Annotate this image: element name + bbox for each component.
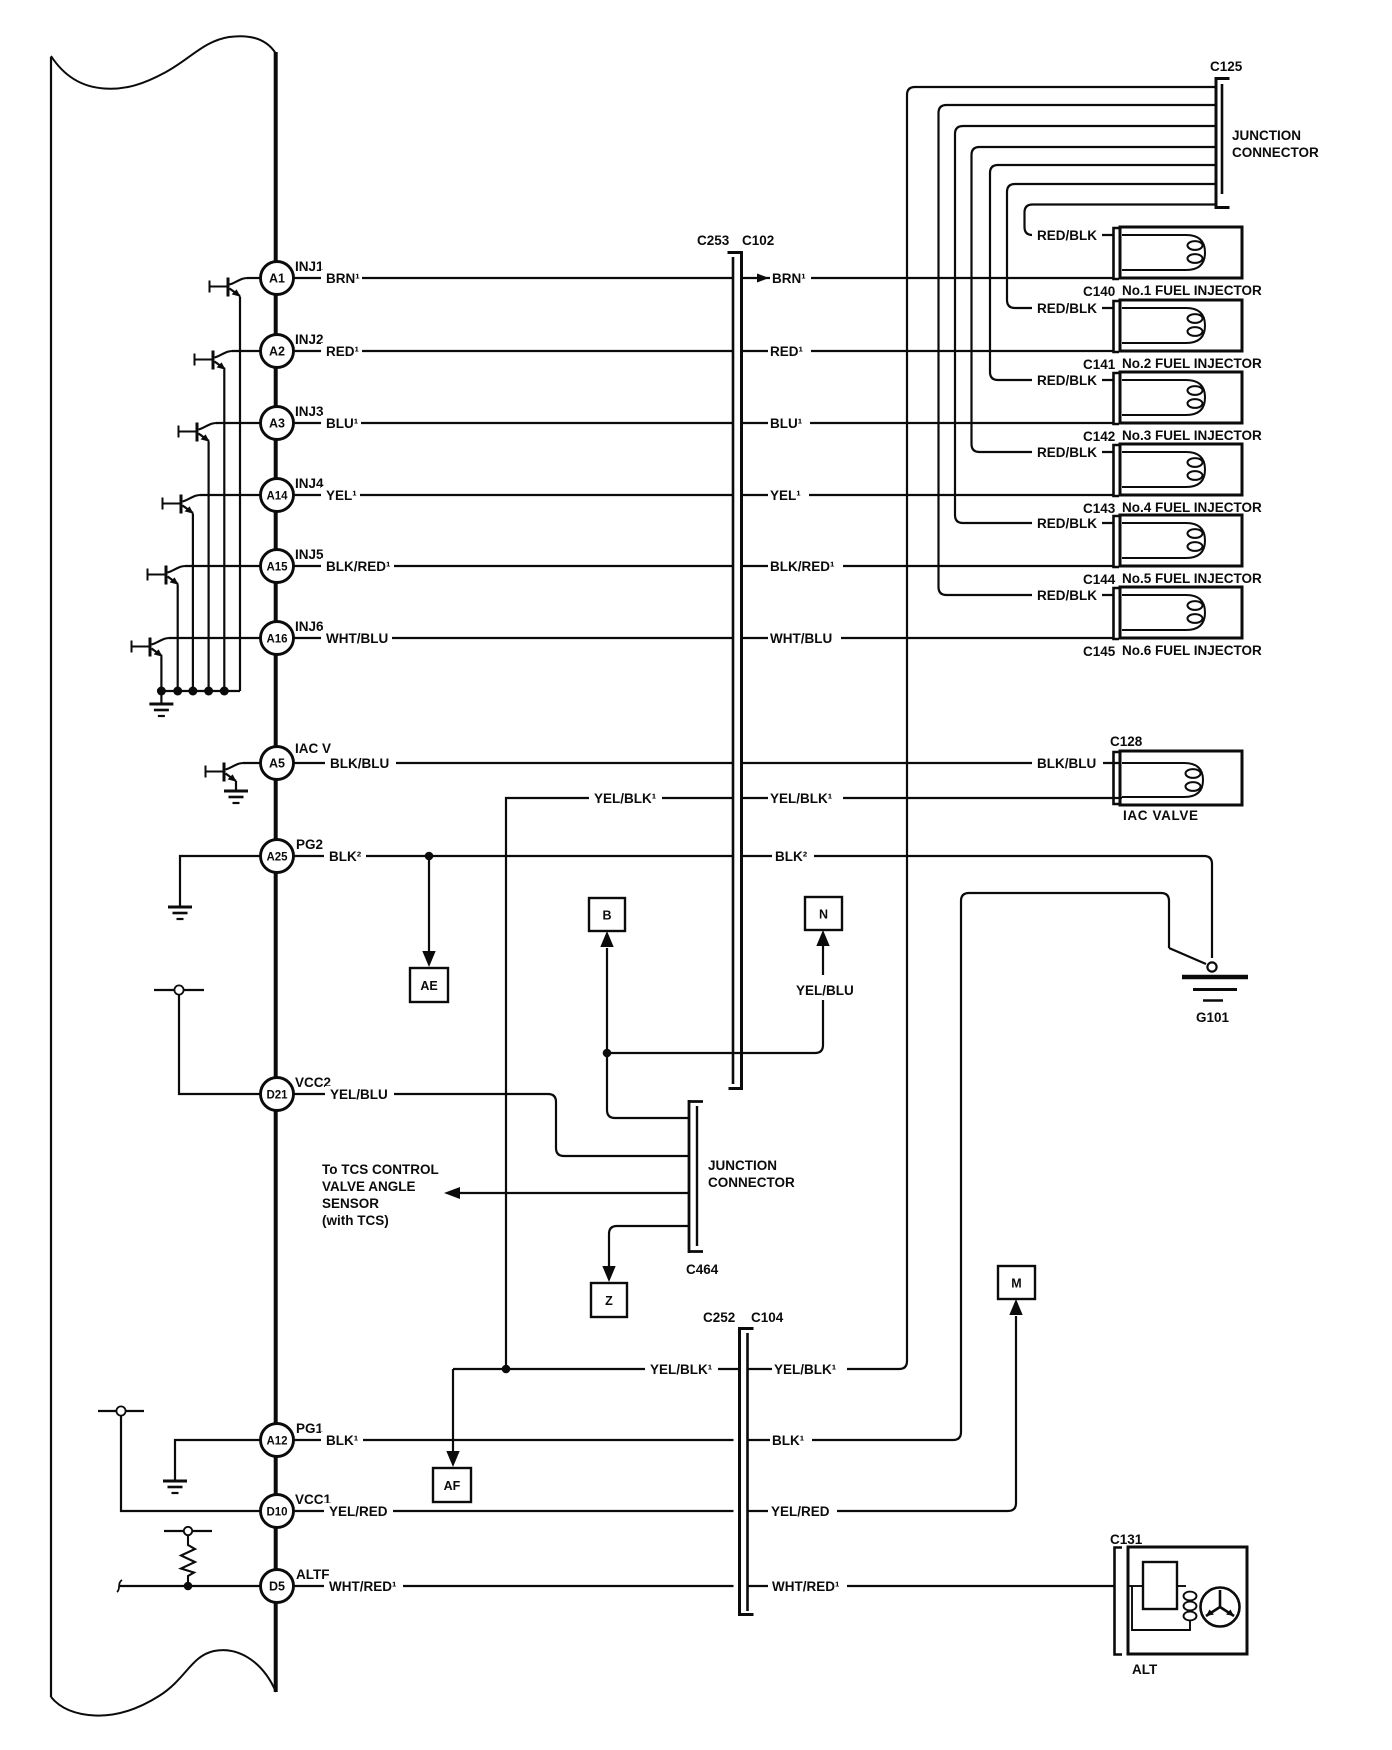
svg-text:WHT/BLU: WHT/BLU: [770, 631, 832, 646]
svg-text:YEL/BLU: YEL/BLU: [330, 1087, 388, 1102]
svg-text:YEL/BLK¹: YEL/BLK¹: [594, 791, 657, 806]
pin A15: [261, 550, 294, 583]
svg-text:A1: A1: [269, 272, 285, 286]
svg-text:A25: A25: [266, 852, 288, 864]
svg-text:C253: C253: [697, 233, 730, 248]
box Z: [591, 1266, 627, 1317]
wire C125 pin2 to injector 6: [939, 105, 1217, 595]
box B: [589, 898, 625, 947]
svg-text:D21: D21: [266, 1090, 288, 1102]
wire YEL1 left (A14 to C253): [294, 494, 734, 496]
connector C253/C102: [728, 251, 742, 1090]
terminal circle resistor top: [184, 1527, 192, 1535]
label YEL/BLK1 upper right: [768, 790, 843, 806]
fuel injector No.4 C143: [1114, 444, 1243, 496]
fuel injector No.5 C144: [1114, 515, 1243, 567]
svg-text:B: B: [602, 909, 611, 923]
svg-text:AE: AE: [420, 979, 437, 993]
ground G101: [1182, 977, 1248, 1001]
label YEL/BLU left: [325, 1086, 394, 1102]
transistor Q6 (INJ6 driver): [132, 638, 262, 692]
pin A3: [261, 407, 294, 440]
svg-text:C131: C131: [1110, 1532, 1143, 1547]
transistor Q1 (INJ1 driver): [210, 278, 262, 692]
label YEL/BLK1 upper left: [589, 790, 662, 806]
wire RED1 left (A2 to C253): [294, 350, 734, 352]
svg-text:INJ1: INJ1: [295, 259, 324, 274]
wire YEL/BLK1 bottom row left: [453, 1369, 740, 1451]
wire BLU1 left (A3 to C253): [294, 422, 734, 424]
wire YEL/RED (D10 to C252): [294, 1510, 734, 1512]
svg-text:IAC VALVE: IAC VALVE: [1123, 808, 1198, 823]
transistor Q5 (INJ5 driver): [148, 566, 262, 692]
ground (injector drivers): [149, 691, 173, 716]
svg-text:RED¹: RED¹: [326, 344, 360, 359]
label BLK1 right: [770, 1432, 812, 1448]
svg-text:C143: C143: [1083, 501, 1116, 516]
wire C125 pin6 to injector 2: [1007, 184, 1216, 308]
svg-text:A12: A12: [266, 1436, 287, 1448]
svg-text:A5: A5: [269, 757, 285, 771]
wire C125 pin4 to injector 4: [972, 147, 1217, 452]
wire BLK2 right (C102 to G101 switch): [742, 856, 1213, 958]
svg-text:WHT/BLU: WHT/BLU: [326, 631, 388, 646]
svg-text:RED/BLK: RED/BLK: [1037, 373, 1097, 388]
label RED/BLK injector 6: [1032, 587, 1102, 603]
wire BLK1 (A12 to C252): [294, 1439, 734, 1441]
pin A25: [261, 840, 294, 873]
svg-text:RED/BLK: RED/BLK: [1037, 228, 1097, 243]
svg-text:PG1: PG1: [296, 1421, 324, 1436]
label YEL/BLU on N drop: [793, 981, 859, 998]
svg-text:RED/BLK: RED/BLK: [1037, 301, 1097, 316]
label RED/BLK injector 1: [1032, 227, 1102, 243]
pin D10: [261, 1495, 294, 1528]
label RED/BLK injector 5: [1032, 515, 1102, 531]
label YEL1 left: [321, 487, 360, 503]
fuel injector No.2 C141: [1114, 300, 1243, 352]
wire B/N row crossing C102: [607, 946, 823, 1053]
svg-text:No.5 FUEL INJECTOR: No.5 FUEL INJECTOR: [1122, 571, 1262, 586]
label YEL/RED right: [768, 1503, 837, 1519]
wire YEL/RED right (C104 to M): [748, 1316, 1017, 1511]
svg-text:WHT/RED¹: WHT/RED¹: [772, 1579, 840, 1594]
ground (A25 PG2): [168, 907, 192, 919]
node rail junction dots: [157, 687, 229, 696]
svg-text:AF: AF: [444, 1479, 461, 1493]
svg-text:YEL/BLK¹: YEL/BLK¹: [774, 1362, 837, 1377]
wire WHT/RED1 right (C104 to ALT): [748, 1585, 1115, 1587]
svg-text:A14: A14: [266, 491, 288, 503]
svg-text:BLK¹: BLK¹: [326, 1433, 359, 1448]
label WHT/RED1 left: [324, 1578, 403, 1594]
pin A5: [261, 747, 294, 780]
svg-text:CONNECTOR: CONNECTOR: [1232, 145, 1319, 160]
svg-text:C102: C102: [742, 233, 774, 248]
label RED/BLK injector 2: [1032, 300, 1102, 316]
terminal circle D21 branch: [174, 985, 183, 994]
svg-text:C144: C144: [1083, 572, 1116, 587]
wire YEL/BLK1 bottom row right (to C125 feed): [748, 87, 1217, 1369]
svg-text:RED/BLK: RED/BLK: [1037, 588, 1097, 603]
node dot BLK2/AE: [425, 852, 434, 861]
svg-text:D10: D10: [266, 1507, 287, 1519]
label BLK/RED1 right: [768, 558, 843, 574]
wire TCS arrow line: [444, 1187, 688, 1266]
svg-text:A15: A15: [266, 562, 288, 574]
svg-text:C142: C142: [1083, 429, 1115, 444]
svg-text:To TCS CONTROL: To TCS CONTROL: [322, 1162, 439, 1177]
svg-text:C464: C464: [686, 1262, 719, 1277]
svg-text:BLK/BLU: BLK/BLU: [330, 756, 389, 771]
svg-text:RED/BLK: RED/BLK: [1037, 445, 1097, 460]
svg-text:BRN¹: BRN¹: [326, 271, 360, 286]
label RED1 left: [321, 343, 362, 359]
svg-text:C104: C104: [751, 1310, 784, 1325]
svg-text:BLK¹: BLK¹: [772, 1433, 805, 1448]
svg-text:INJ5: INJ5: [295, 547, 324, 562]
label BLK2 right: [772, 848, 814, 864]
svg-text:CONNECTOR: CONNECTOR: [708, 1175, 795, 1190]
wire emitter rail: [161, 690, 240, 692]
fuel injector No.6 C145: [1114, 587, 1243, 639]
svg-text:BRN¹: BRN¹: [772, 271, 806, 286]
svg-text:BLK/BLU: BLK/BLU: [1037, 756, 1096, 771]
svg-text:RED/BLK: RED/BLK: [1037, 516, 1097, 531]
svg-text:YEL/BLK¹: YEL/BLK¹: [770, 791, 833, 806]
wire BLK/RED1 left (A15 to C253): [294, 565, 734, 567]
wire C125 pin3 to injector 5: [955, 126, 1216, 523]
wire YEL/BLK1 left vertical: [506, 798, 733, 1369]
wire YEL/BLK1 right (C102 to IAC valve low pin): [742, 797, 1123, 799]
svg-text:WHT/RED¹: WHT/RED¹: [329, 1579, 397, 1594]
svg-text:C252: C252: [703, 1310, 735, 1325]
svg-text:IAC V: IAC V: [295, 741, 331, 756]
svg-text:A16: A16: [266, 634, 287, 646]
label BLK2 left: [324, 848, 366, 864]
wire BLK1 right (C104 to G101 feed): [748, 893, 1170, 1440]
transistor Q7 (IAC driver): [206, 763, 262, 792]
wire A25 to ground: [180, 856, 261, 906]
box AF: [433, 1451, 471, 1502]
box N: [805, 897, 842, 946]
label BRN1 left: [321, 270, 362, 286]
switch to G101: [1169, 948, 1217, 972]
svg-text:C125: C125: [1210, 59, 1243, 74]
wire WHT/BLU left (A16 to C253): [294, 637, 734, 639]
label BLK/BLU left: [325, 755, 396, 771]
wire WHT/RED1 (D5 to C252): [294, 1585, 734, 1587]
svg-text:Z: Z: [605, 1294, 613, 1308]
svg-text:BLK²: BLK²: [329, 849, 362, 864]
svg-text:INJ3: INJ3: [295, 404, 324, 419]
wire BRN1 right (C102 to injector 1): [742, 277, 1114, 279]
wire BLU1 right (C102 to injector 3): [742, 422, 1114, 424]
node dot YEL/BLK junction: [502, 1365, 511, 1374]
svg-text:C141: C141: [1083, 357, 1116, 372]
label BLK/RED1 left: [321, 558, 394, 574]
fuel injector No.1 C140: [1114, 227, 1243, 279]
IAC valve C128: [1114, 751, 1243, 805]
wire break squiggle D5 row: [117, 1580, 122, 1592]
svg-text:PG2: PG2: [296, 837, 323, 852]
svg-text:D5: D5: [269, 1580, 285, 1594]
ground (A12 PG1): [163, 1481, 187, 1493]
box AE: [410, 951, 448, 1002]
svg-text:No.4 FUEL INJECTOR: No.4 FUEL INJECTOR: [1122, 500, 1262, 515]
label WHT/BLU right: [768, 630, 841, 646]
wire BLK/RED1 right (C102 to injector 5): [742, 565, 1114, 567]
label RED/BLK injector 4: [1032, 444, 1102, 460]
svg-text:YEL¹: YEL¹: [326, 488, 357, 503]
node dot on D5 row: [184, 1582, 193, 1591]
wire BLK1 left (A12 to ground): [175, 1440, 261, 1480]
pin A12: [261, 1424, 294, 1457]
wire color labels (white backed, on-line): [321, 227, 1103, 1594]
svg-text:INJ6: INJ6: [295, 619, 324, 634]
resistor R1 terminal: [164, 1530, 212, 1532]
label WHT/BLU left: [321, 630, 392, 646]
wire RED1 right (C102 to injector 2): [742, 350, 1114, 352]
transistor Q3 (INJ3 driver): [179, 423, 262, 692]
connector C252/C104: [740, 1327, 754, 1616]
svg-text:BLU¹: BLU¹: [770, 416, 803, 431]
wire C125 pin5 to injector 3: [990, 165, 1216, 380]
label YEL1 right: [768, 487, 809, 503]
svg-text:No.3 FUEL INJECTOR: No.3 FUEL INJECTOR: [1122, 428, 1262, 443]
wire YEL1 right (C102 to injector 4): [742, 494, 1114, 496]
label BLU1 right: [768, 415, 810, 431]
svg-text:C140: C140: [1083, 284, 1115, 299]
wire B box drop to C464: [607, 948, 688, 1118]
transistor Q2 (INJ2 driver): [195, 351, 262, 692]
svg-text:JUNCTION: JUNCTION: [1232, 128, 1301, 143]
svg-text:No.1 FUEL INJECTOR: No.1 FUEL INJECTOR: [1122, 283, 1262, 298]
junction connector C464: [689, 1100, 703, 1253]
label YEL/BLK1 lower right: [772, 1361, 847, 1377]
svg-text:(with TCS): (with TCS): [322, 1213, 389, 1228]
svg-text:SENSOR: SENSOR: [322, 1196, 379, 1211]
svg-text:BLU¹: BLU¹: [326, 416, 359, 431]
svg-text:BLK/RED¹: BLK/RED¹: [326, 559, 391, 574]
terminal circle D10 branch: [116, 1406, 125, 1415]
resistor R1: [181, 1536, 195, 1587]
svg-text:YEL/BLU: YEL/BLU: [796, 983, 854, 998]
label To TCS CONTROL VALVE ANGLE SENSOR (with TCS): [322, 1162, 439, 1228]
label WHT/RED1 right: [768, 1578, 847, 1594]
wire BLK/BLU right (C102 to IAC valve): [742, 762, 1121, 764]
label RED/BLK injector 3: [1032, 372, 1102, 388]
pin A1: [261, 262, 294, 295]
svg-text:YEL/BLK¹: YEL/BLK¹: [650, 1362, 713, 1377]
label YEL/RED left: [324, 1503, 393, 1519]
svg-text:JUNCTION: JUNCTION: [708, 1158, 777, 1173]
label BLK1 left: [321, 1432, 363, 1448]
ECM bottom torn-edge wave: [51, 1650, 276, 1715]
svg-text:BLK/RED¹: BLK/RED¹: [770, 559, 835, 574]
wire C125 pin7 to injector 1: [1025, 205, 1217, 236]
svg-text:RED¹: RED¹: [770, 344, 804, 359]
pin A16: [261, 622, 294, 655]
svg-text:A3: A3: [269, 417, 285, 431]
svg-text:INJ4: INJ4: [295, 476, 324, 491]
label BLU1 left: [321, 415, 361, 431]
ECM internal bus (right thick line): [274, 52, 278, 1692]
wire AE drop: [428, 856, 430, 951]
svg-text:G101: G101: [1196, 1010, 1230, 1025]
terminal to D10: [98, 1410, 144, 1412]
svg-text:M: M: [1011, 1277, 1021, 1291]
label RED1 right: [768, 343, 811, 359]
svg-text:C145: C145: [1083, 644, 1116, 659]
junction connector C125: [1216, 77, 1230, 209]
wire BLK/BLU left (A5 to C253): [294, 762, 734, 764]
svg-text:C128: C128: [1110, 734, 1143, 749]
label BRN1 right: [770, 270, 811, 286]
node dot B/N row: [603, 1049, 612, 1058]
wire WHT/RED1 left (to D5): [120, 1585, 261, 1587]
svg-text:YEL/RED: YEL/RED: [329, 1504, 388, 1519]
fuel injector No.3 C142: [1114, 372, 1243, 424]
alternator ALT C131: [1115, 1547, 1248, 1655]
ECM left boundary line: [50, 57, 52, 1697]
terminal to D21: [154, 989, 204, 991]
svg-text:INJ2: INJ2: [295, 332, 324, 347]
svg-text:No.6 FUEL INJECTOR: No.6 FUEL INJECTOR: [1122, 643, 1262, 658]
wire BRN1 left (A1 to C253): [294, 277, 734, 279]
label BLK/BLU right: [1032, 755, 1103, 771]
wire BLK2 left (A25 to C253): [294, 855, 734, 857]
wire C464 to Z: [609, 1226, 688, 1266]
pin D21: [261, 1078, 294, 1111]
pin A2: [261, 335, 294, 368]
svg-text:N: N: [819, 908, 828, 922]
label YEL/BLK1 lower left: [645, 1361, 718, 1377]
transistor Q4 (INJ4 driver): [163, 495, 262, 692]
svg-text:BLK²: BLK²: [775, 849, 808, 864]
svg-text:YEL/RED: YEL/RED: [771, 1504, 830, 1519]
wire WHT/BLU right (C102 to injector 6): [742, 637, 1114, 639]
box M: [998, 1266, 1035, 1315]
svg-text:A2: A2: [269, 345, 285, 359]
ECM top torn-edge wave: [51, 36, 276, 88]
svg-text:ALT: ALT: [1132, 1662, 1158, 1677]
svg-text:VALVE ANGLE: VALVE ANGLE: [322, 1179, 416, 1194]
svg-text:YEL¹: YEL¹: [770, 488, 801, 503]
pin D5: [261, 1570, 294, 1603]
svg-text:No.2 FUEL INJECTOR: No.2 FUEL INJECTOR: [1122, 356, 1262, 371]
ground (Q7 emitter): [224, 791, 248, 803]
pin A14: [261, 479, 294, 512]
wire YEL/BLU right of D21: [294, 1094, 689, 1156]
